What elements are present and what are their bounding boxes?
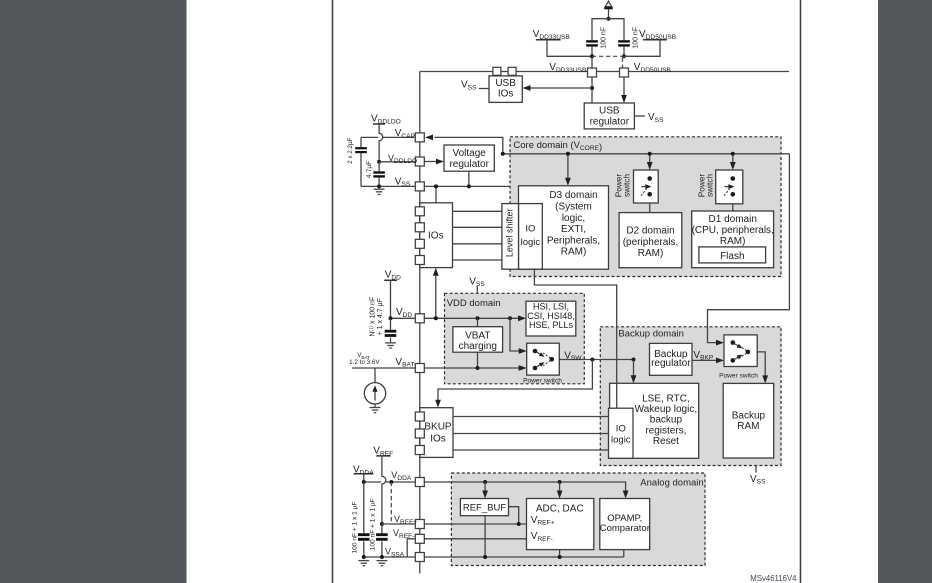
Flash block	[699, 247, 766, 263]
svg-text:regulator: regulator	[449, 159, 489, 170]
wire VDD net	[391, 317, 416, 319]
wire VDDLDO to pin	[379, 161, 415, 163]
ground	[358, 560, 369, 562]
node VDDA dashed junction	[389, 480, 393, 484]
power switch D1 block	[716, 170, 743, 204]
svg-text:Power switch: Power switch	[523, 377, 562, 384]
pin VCAP	[415, 133, 424, 142]
Backup RAM block	[723, 383, 774, 458]
wire supply to caps	[608, 9, 610, 18]
pin IO3	[415, 239, 424, 248]
VBAT charging block	[453, 327, 503, 353]
switch contacts backup	[731, 340, 736, 345]
wire VCORE to backup switch	[708, 154, 790, 343]
svg-text:IOs: IOs	[498, 89, 514, 100]
svg-text:RAM): RAM)	[638, 248, 664, 259]
wire VSW to BKUP IOs	[438, 360, 592, 402]
svg-text:logic,: logic,	[562, 213, 585, 224]
ground	[377, 560, 388, 562]
wire OPAMP to VSSA	[623, 550, 625, 557]
wire VDDA stub	[354, 473, 374, 475]
svg-text:RAM): RAM)	[561, 247, 587, 258]
wire BKUP IOs bus	[453, 416, 609, 418]
pin VBAT	[415, 364, 424, 373]
svg-text:MSv46116V4: MSv46116V4	[750, 574, 797, 583]
IOs block	[420, 203, 453, 268]
wire regulator bottom to VSS	[468, 171, 470, 186]
D2 domain block	[619, 213, 682, 268]
wire analog VSSA rail	[424, 556, 624, 558]
svg-text:USB: USB	[495, 78, 516, 89]
wire VDD to IOs	[435, 274, 437, 318]
switch contacts D2	[647, 176, 652, 181]
wire IOs to level shifter bus	[453, 210, 502, 212]
wire backup VSS stub	[755, 466, 757, 473]
D3 domain block	[519, 186, 609, 269]
wire VDDLDO stub	[373, 123, 385, 125]
ground	[385, 342, 396, 344]
node VDD IOs junction	[434, 316, 438, 320]
backup regulator block	[650, 343, 693, 375]
wire VDDLDO pin to regulator	[424, 161, 437, 163]
capacitor VDD decoupling	[390, 318, 392, 330]
wire VDD33USB stub	[536, 39, 561, 41]
USB IOs block	[489, 76, 522, 103]
Analog domain region	[451, 473, 705, 566]
capacitor C1 100nF	[586, 40, 598, 42]
REF_BUF block	[460, 499, 508, 516]
svg-text:100 nF + 1 x 1 µF: 100 nF + 1 x 1 µF	[351, 502, 358, 554]
svg-text:REF_BUF: REF_BUF	[463, 503, 506, 514]
svg-text:RAM: RAM	[737, 421, 759, 432]
power switch D2 block	[634, 170, 659, 203]
wire to USB IOs	[530, 87, 593, 89]
switch contacts D1	[731, 176, 736, 181]
capacitor 4.7uF	[378, 162, 380, 172]
wire VDD to power switch	[510, 318, 520, 351]
node C1 rail junction	[590, 54, 594, 58]
wire VSS stub VDD domain	[476, 286, 478, 293]
ground	[374, 188, 385, 190]
svg-text:IOs: IOs	[430, 433, 446, 444]
node supply junction	[607, 17, 611, 21]
capacitor VREF decoupling	[381, 524, 383, 533]
node regulator output	[501, 152, 505, 156]
pin IO4	[415, 256, 424, 265]
pin VREF-	[415, 534, 424, 543]
wire C1 bottom	[591, 47, 593, 69]
svg-text:Flash: Flash	[720, 251, 744, 262]
svg-text:regulator: regulator	[651, 358, 691, 369]
svg-text:Reset: Reset	[653, 436, 679, 447]
pin VDD	[415, 314, 424, 323]
level shifter block	[502, 204, 519, 270]
svg-text:IO: IO	[525, 224, 535, 235]
wire dashed cap link	[592, 55, 624, 57]
svg-text:Power switch: Power switch	[719, 372, 758, 379]
node VDDLDO junction	[377, 160, 381, 164]
pin BKUP1	[415, 412, 424, 421]
node VSW LSE branch	[632, 358, 636, 362]
svg-text:backup: backup	[650, 415, 683, 426]
BKUP IOs block	[420, 408, 453, 458]
pin VREF+	[415, 520, 424, 529]
svg-text:Analog domain: Analog domain	[640, 477, 703, 488]
HSI oscillators block	[526, 301, 576, 336]
wire regulator feedback to VCAP	[435, 137, 503, 153]
node C2 rail junction	[622, 54, 626, 58]
wire rail to REF_BUF	[484, 482, 486, 492]
svg-text:1.2 to 3.6V: 1.2 to 3.6V	[349, 359, 380, 366]
wire VSSA net	[364, 556, 416, 558]
node REF_BUF output junction	[517, 522, 521, 526]
pin USBIO2	[508, 67, 516, 75]
wire VDD to VBAT charging	[477, 318, 479, 326]
svg-text:switch: switch	[621, 174, 631, 197]
svg-text:ADC, DAC: ADC, DAC	[536, 503, 584, 514]
pin IO1	[415, 207, 424, 216]
wire VREF- to VSSA	[407, 539, 415, 557]
wire VCAP net	[361, 136, 378, 138]
svg-text:EXTI,: EXTI,	[561, 224, 586, 235]
wire ADC to VSSA	[559, 550, 561, 557]
node regulator VSS junction	[467, 184, 471, 188]
svg-text:D2 domain: D2 domain	[626, 226, 674, 237]
wire switch to D1	[732, 194, 734, 211]
wire REF_BUF to VSSA	[484, 516, 486, 557]
wire VBKP net	[692, 359, 717, 361]
wire VREF stub	[376, 455, 390, 457]
OPAMP comparator block	[600, 499, 650, 550]
wire VSS net	[361, 185, 510, 187]
wire VDD50USB stub	[643, 39, 667, 41]
wire rail to ADC	[559, 482, 561, 492]
wire dashed VDDA to VREF+	[390, 482, 392, 523]
svg-text:(System: (System	[555, 202, 592, 213]
svg-text:Backup: Backup	[732, 411, 766, 422]
node VDD VBAT-charging junction	[476, 316, 480, 320]
svg-text:LSE, RTC,: LSE, RTC,	[642, 394, 690, 405]
svg-text:+ 1 x 4.7 µF: + 1 x 4.7 µF	[377, 298, 384, 335]
svg-text:(CPU, peripherals,: (CPU, peripherals,	[692, 225, 774, 236]
Core domain region	[510, 137, 781, 277]
svg-text:IO: IO	[616, 423, 626, 434]
figure left border	[332, 0, 334, 583]
wire VDD stub	[384, 279, 397, 281]
D1 domain block	[692, 211, 774, 268]
wire REF_BUF output	[509, 507, 519, 524]
wire VCORE to power switch D2	[649, 154, 651, 164]
svg-text:USB: USB	[599, 106, 620, 117]
battery VBAT source	[374, 368, 376, 383]
svg-text:D1 domain: D1 domain	[709, 214, 757, 225]
wire C2 bottom	[623, 47, 625, 57]
svg-text:BKUP: BKUP	[424, 421, 452, 432]
svg-text:2 x 2.2µF: 2 x 2.2µF	[347, 137, 354, 164]
wire core IO logic to backup IO logic	[534, 268, 616, 408]
capacitor C2 100nF	[618, 40, 630, 42]
wire analog VDDA rail	[424, 482, 625, 492]
node VSS IOs junction	[434, 184, 438, 188]
wire VDD50USB pin to USB regulator	[623, 77, 625, 96]
voltage regulator U1	[444, 145, 494, 171]
wire backup switch to Backup RAM	[748, 352, 765, 377]
node rail REF_BUF junction	[483, 480, 487, 484]
ADC DAC block	[527, 499, 594, 550]
wire 4.7uF to VSS	[378, 178, 380, 187]
svg-text:HSE, PLLs: HSE, PLLs	[529, 320, 574, 330]
wire VREF+ to ADC	[424, 523, 526, 525]
USB regulator block	[584, 103, 634, 129]
wire USB regulator VSS stub	[634, 115, 645, 117]
wire cap top rail	[592, 19, 624, 41]
wire VSW to LSE block	[633, 360, 635, 378]
wire VSS to IOs	[435, 186, 437, 202]
backup IO logic block	[609, 408, 634, 458]
svg-text:Level shifter: Level shifter	[504, 209, 514, 258]
svg-text:100 nF: 100 nF	[632, 27, 639, 49]
node rail ADC junction	[558, 480, 562, 484]
svg-text:IOs: IOs	[428, 230, 444, 241]
pin VSSA	[415, 553, 424, 562]
capacitor VDDA decoupling	[363, 482, 365, 533]
backup power switch block	[724, 335, 757, 367]
pin VDD50USB	[620, 68, 629, 77]
node VDD33USB branch	[590, 86, 594, 90]
wire VSW net	[552, 359, 634, 361]
wire VBAT charging to VBAT	[477, 352, 479, 368]
switch contacts VDD VSW	[533, 349, 538, 354]
svg-text:charging: charging	[459, 341, 497, 352]
svg-text:VDD domain: VDD domain	[447, 298, 501, 309]
svg-text:D3 domain: D3 domain	[549, 190, 597, 201]
pin VDD33USB	[588, 68, 597, 77]
svg-text:Wakeup logic,: Wakeup logic,	[635, 404, 697, 415]
wire VCORE to D3	[567, 154, 569, 179]
node VDDA cap junction	[362, 480, 366, 484]
wire VREF- to ADC	[424, 538, 526, 540]
wire chip edge	[419, 72, 421, 574]
node VREF junction	[380, 522, 384, 526]
capacitor 2x2.2uF	[355, 147, 367, 149]
node 4.7uF VSS junction	[377, 184, 381, 188]
svg-text:Backup domain: Backup domain	[618, 328, 683, 339]
wire VCORE to power switch D1	[732, 154, 734, 164]
VDD power switch block	[527, 343, 560, 375]
figure right border	[800, 0, 802, 583]
svg-text:switch: switch	[705, 174, 715, 197]
wire VDDA net	[364, 481, 381, 483]
svg-text:100 nF + 1 x 1 µF: 100 nF + 1 x 1 µF	[369, 498, 376, 550]
wire top supply rail	[420, 71, 789, 73]
wire VREF to VREF+ pin	[382, 523, 415, 525]
pin USBIO1	[493, 67, 501, 75]
wire VBAT net	[352, 367, 415, 369]
external supply symbol	[605, 1, 611, 6]
pin BKUP3	[415, 446, 424, 455]
wire VDD33USB pin to USB regulator	[591, 77, 593, 103]
wire core VCORE rail	[503, 153, 790, 155]
node VREF cap VSSA junction	[380, 555, 384, 559]
Backup domain region	[600, 327, 781, 466]
svg-text:logic: logic	[521, 237, 541, 248]
VDD domain region	[445, 293, 585, 384]
IO logic block	[519, 204, 543, 270]
svg-text:registers,: registers,	[645, 425, 686, 436]
node VSW branch	[590, 358, 594, 362]
node VDD label junction	[389, 316, 393, 320]
pin VDDA	[415, 478, 424, 487]
pin VDDLDO	[415, 157, 424, 166]
svg-text:(peripherals,: (peripherals,	[623, 237, 679, 248]
svg-text:4.7µF: 4.7µF	[366, 161, 373, 179]
node VDD switch junction	[508, 316, 512, 320]
svg-text:Comparator: Comparator	[600, 523, 650, 534]
wire USB IOs VSS stub	[479, 88, 489, 90]
svg-text:logic: logic	[611, 434, 631, 445]
pin BKUP2	[415, 429, 424, 438]
svg-text:RAM): RAM)	[720, 236, 746, 247]
node VDDA cap VSSA junction	[362, 555, 366, 559]
svg-text:regulator: regulator	[590, 117, 630, 128]
pin VSS	[415, 182, 424, 191]
ground	[370, 407, 381, 409]
svg-text:Peripherals,: Peripherals,	[547, 235, 600, 246]
pin IO2	[415, 223, 424, 232]
svg-text:100 nF: 100 nF	[600, 27, 607, 49]
wire switch to D2	[649, 194, 651, 212]
wire cap to VSS	[360, 153, 362, 186]
wire dashed VDD50USB to pin	[622, 58, 624, 69]
svg-text:Voltage: Voltage	[453, 148, 487, 159]
LSE RTC block	[610, 383, 699, 458]
